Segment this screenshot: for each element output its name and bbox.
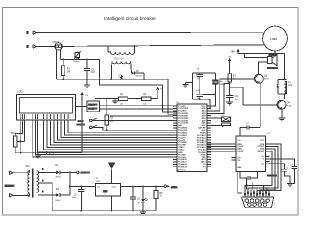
MCU pin labels left column	[178, 106, 189, 169]
wire sense channel 1	[100, 59, 177, 112]
svg-text:C2-: C2-	[237, 160, 240, 162]
svg-text:3 out: 3 out	[112, 186, 117, 189]
ground bottom rail	[140, 212, 146, 213]
+5V supply arrow top	[228, 50, 239, 59]
regulator U2 7805	[96, 178, 121, 196]
net arrow marker	[47, 151, 55, 155]
speaker LS1	[267, 54, 279, 70]
resistor R2	[228, 62, 237, 95]
transistor Q4	[277, 100, 292, 118]
capacitor C3	[270, 164, 290, 184]
wire clock SCL	[99, 108, 173, 110]
wire mains neutral	[13, 194, 30, 196]
diode D2	[55, 188, 70, 202]
wire Q3 emitter down	[259, 83, 260, 128]
output +5V	[164, 185, 177, 189]
wire XTAL pin 2	[207, 99, 210, 108]
svg-text:C1-: C1-	[261, 164, 264, 166]
diode D5	[276, 80, 279, 94]
wire secondary bottom tap	[38, 194, 56, 196]
resistor R3	[105, 98, 114, 130]
capacitor C10	[196, 90, 203, 100]
+5V arrow clock	[81, 93, 89, 153]
wire LCD D3	[54, 120, 173, 142]
RTC clock U5	[87, 101, 99, 112]
wire crystal top rail	[192, 72, 215, 74]
MCU left pin stubs	[173, 106, 177, 167]
ground under C1	[84, 79, 90, 87]
wire ground rail bottom	[52, 210, 156, 212]
terminal AC neutral	[10, 194, 14, 197]
ground LCD rail	[35, 153, 41, 158]
switch labels Auto Manual	[77, 120, 86, 126]
wire LCD VEE to pot wiper	[17, 120, 24, 143]
wire secondary top tap	[38, 171, 56, 173]
svg-text:12V: 12V	[288, 85, 293, 87]
LCD module LCD1	[17, 90, 76, 120]
ground MAX232 caps	[287, 184, 293, 187]
IC U3 MAX232	[236, 132, 277, 177]
svg-text:D8: D8	[137, 203, 139, 205]
wire U3 left bottom to DB9	[238, 171, 267, 193]
capacitor C5	[72, 186, 85, 211]
terminal AC live	[10, 171, 14, 174]
svg-text:AT89C51: AT89C51	[178, 169, 187, 172]
diode D1	[55, 164, 70, 178]
transistor Q3	[254, 74, 269, 83]
node junction dots top	[62, 59, 87, 61]
relay L1	[278, 80, 293, 100]
svg-text:1N4007: 1N4007	[55, 200, 61, 202]
terminal N	[26, 45, 36, 48]
resistor R4	[118, 94, 141, 106]
power flag	[108, 162, 115, 183]
DB9 pin number blobs	[244, 192, 270, 196]
svg-text:1M: 1M	[67, 70, 70, 73]
+5V arrow divider	[157, 88, 163, 99]
svg-text:1N4007: 1N4007	[55, 177, 61, 179]
crystal X1	[212, 73, 225, 94]
U3 right pin stubs	[265, 144, 269, 164]
svg-text:VCC: VCC	[260, 140, 265, 142]
LCD pin labels	[20, 114, 68, 119]
U3 bottom charge pump cap	[240, 171, 258, 180]
svg-text:230V / 9V: 230V / 9V	[114, 58, 124, 60]
wire LCD RW	[35, 120, 173, 155]
DB9 pin wires comb	[245, 190, 269, 198]
switch SW1	[89, 118, 173, 122]
ground under C11	[226, 102, 233, 105]
wire line A	[37, 32, 264, 34]
transformer CT102 secondary	[111, 62, 131, 80]
varistor	[73, 51, 80, 63]
wire CT secondary bottom node	[57, 78, 169, 80]
wire LCD VSS	[20, 120, 22, 153]
svg-text:RV1: RV1	[11, 132, 16, 135]
resistor R1	[62, 59, 71, 79]
svg-text:2: 2	[105, 194, 106, 196]
svg-text:+5V: +5V	[171, 185, 176, 189]
test point +12V	[70, 171, 90, 175]
wire line N right of CT	[63, 45, 265, 47]
capacitor C2	[240, 122, 260, 136]
wire LCD D2	[50, 120, 173, 145]
svg-text:Manual: Manual	[77, 124, 85, 126]
ground crystal	[182, 82, 192, 87]
svg-text:LCD1: LCD1	[17, 90, 24, 94]
capacitor C1	[84, 59, 95, 79]
svg-text:1N4148: 1N4148	[136, 76, 142, 78]
svg-text:P2.5/A13: P2.5/A13	[178, 166, 187, 169]
resistor R5	[142, 94, 158, 106]
svg-text:GND: GND	[237, 167, 242, 169]
diode D6	[132, 71, 145, 79]
svg-text:Load: Load	[270, 37, 277, 41]
wire R2 node to Q4 base	[229, 86, 243, 104]
wire regulated rail	[120, 186, 164, 188]
wire LCD E	[38, 120, 174, 152]
wire Q4 base	[243, 104, 278, 106]
wire sense channel 2	[168, 79, 177, 114]
capacitor C11	[226, 95, 239, 102]
svg-text:matrix: matrix	[88, 104, 96, 107]
+5V arrow R2	[228, 59, 230, 63]
U3 left pin stubs	[232, 144, 236, 160]
svg-text:SOUNDER: SOUNDER	[267, 68, 279, 70]
svg-text:Auto: Auto	[78, 120, 83, 123]
switch SW2	[89, 125, 106, 130]
svg-text:10k: 10k	[143, 104, 146, 106]
wire LCD VDD	[15, 120, 22, 136]
svg-text:10k: 10k	[120, 104, 123, 106]
svg-text:230Vac: 230Vac	[5, 185, 14, 188]
svg-text:Intelligent circuit breaker: Intelligent circuit breaker	[104, 16, 156, 22]
ground under Q4	[278, 118, 285, 121]
svg-text:clock: clock	[88, 109, 95, 111]
wire clock SDA	[99, 105, 173, 107]
U3 pin labels	[237, 140, 244, 169]
wire LCD D7	[68, 120, 173, 133]
svg-text:1 in: 1 in	[97, 187, 100, 189]
capacitor C6	[130, 186, 141, 210]
wire rectifier output	[69, 172, 71, 195]
load motor	[263, 26, 288, 51]
capacitor C4	[270, 159, 298, 184]
wire CT secondary top node	[61, 58, 100, 60]
wire Q3 collector to speaker	[259, 62, 268, 75]
wire line N	[37, 46, 55, 48]
svg-text:(+) 12V: (+) 12V	[80, 173, 87, 175]
transformer CT102 primary	[107, 45, 135, 54]
wire U3 to DB9 mesh	[257, 144, 281, 197]
wire switch node to MCU	[107, 129, 173, 131]
resistor R9	[154, 186, 163, 210]
node R2 bottom	[220, 81, 230, 85]
component K1	[207, 115, 231, 128]
wire MCU pin to Q3 base	[207, 79, 255, 111]
node U3 bottom junction	[245, 184, 247, 186]
wires MCU to MAX232	[207, 144, 232, 151]
wire relay coil feed	[283, 54, 285, 80]
microcontroller U1	[177, 102, 207, 171]
wire LCD D0	[43, 120, 173, 150]
ground divider	[112, 99, 118, 104]
wire MCU pin to R2 node	[207, 84, 230, 114]
wire C10 to crystal	[203, 94, 216, 96]
wire unregulated rail	[70, 185, 96, 187]
wire XTAL pin 1	[207, 94, 216, 106]
svg-text:BC547: BC547	[264, 78, 270, 80]
wire regulator ground pin	[111, 196, 113, 211]
svg-text:+5V: +5V	[231, 52, 236, 54]
wire divider rail	[95, 98, 118, 100]
transformer TR1	[25, 165, 43, 197]
wire LCD RS	[33, 120, 173, 157]
svg-text:R2OUT: R2OUT	[258, 151, 265, 153]
svg-text:Varistor: Varistor	[73, 60, 80, 63]
capacitor C9	[196, 69, 203, 95]
wire crystal loop left	[191, 73, 193, 99]
wire R3 top to MCU	[110, 115, 173, 117]
MCU pin labels right column	[197, 106, 206, 169]
node junction dots bottom	[62, 78, 144, 80]
terminal A	[26, 31, 36, 34]
wire relay contact rail	[238, 51, 284, 58]
svg-text:T2OUT: T2OUT	[237, 151, 244, 153]
current transformer CT101	[52, 41, 62, 79]
wire LCD D4	[58, 120, 174, 140]
svg-text:TR1: TR1	[25, 165, 30, 168]
svg-text:104: 104	[235, 99, 238, 101]
wire crystal bottom rail	[192, 98, 210, 100]
label 230Vac	[5, 185, 15, 187]
wire mains live	[13, 172, 30, 174]
zener D7	[118, 75, 123, 80]
wire LCD D1	[47, 120, 173, 147]
svg-text:1000u: 1000u	[72, 197, 77, 199]
potentiometer RV1	[11, 132, 17, 153]
wire secondary center tap	[38, 183, 52, 211]
svg-text:BC547: BC547	[287, 106, 293, 108]
DB9 connector J1	[242, 197, 274, 208]
LED D8	[137, 186, 147, 210]
MCU right pin stubs	[207, 106, 211, 167]
wire LCD D6	[65, 120, 173, 135]
wire LCD D5	[61, 120, 173, 138]
wire LCD to clock	[76, 106, 88, 108]
wire ground rail LCD	[15, 152, 82, 154]
